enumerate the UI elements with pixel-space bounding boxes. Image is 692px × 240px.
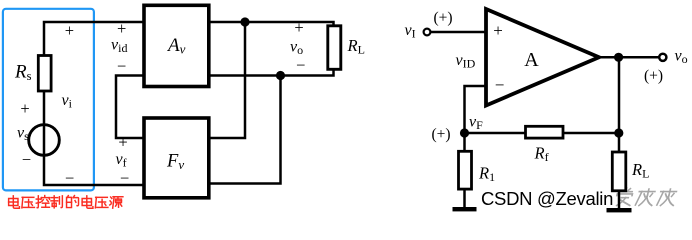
svg-text:Rf: Rf [534, 144, 549, 165]
svg-text:−: − [65, 168, 74, 187]
svg-text:+: + [20, 99, 29, 118]
svg-text:−: − [120, 168, 129, 187]
svg-text:+: + [294, 18, 303, 37]
svg-text:(+): (+) [433, 10, 452, 27]
svg-text:vs: vs [17, 125, 29, 144]
svg-text:CSDN @Zevalin: CSDN @Zevalin [481, 188, 613, 209]
svg-text:+: + [493, 21, 503, 40]
svg-text:RL: RL [347, 36, 365, 57]
svg-text:vi: vi [62, 92, 73, 111]
svg-text:A: A [524, 49, 539, 71]
svg-text:vid: vid [111, 36, 127, 55]
svg-text:RL: RL [631, 160, 649, 181]
svg-text:vID: vID [456, 52, 476, 71]
svg-text:vF: vF [469, 113, 483, 132]
svg-text:R1: R1 [478, 163, 495, 184]
svg-text:vf: vf [116, 151, 127, 170]
svg-text:+: + [65, 21, 74, 40]
svg-text:−: − [22, 150, 31, 169]
svg-text:+: + [117, 19, 126, 38]
svg-text:vo: vo [675, 48, 688, 67]
svg-text:Rs: Rs [14, 62, 32, 84]
svg-text:vo: vo [290, 39, 303, 58]
svg-text:(+): (+) [431, 126, 450, 143]
svg-text:(+): (+) [644, 67, 663, 84]
svg-text:+: + [118, 133, 127, 152]
svg-text:−: − [296, 55, 305, 74]
svg-text:vI: vI [405, 22, 416, 41]
svg-text:−: − [495, 76, 505, 95]
svg-text:−: − [117, 57, 126, 76]
